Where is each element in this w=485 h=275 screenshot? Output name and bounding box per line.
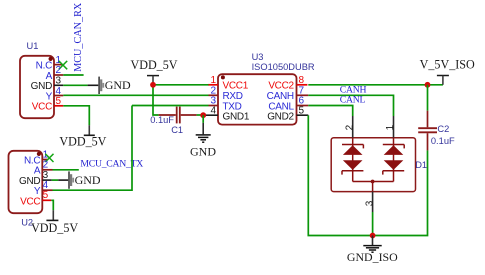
svg-text:GND: GND — [105, 78, 131, 92]
U2 pin 4 Y — [34, 180, 53, 197]
svg-text:0.1uF: 0.1uF — [431, 136, 455, 146]
U3 pin 1 VCC1 — [208, 75, 249, 92]
wire VDD_5V to U3.VCC1 — [153, 84, 209, 86]
svg-text:U3: U3 — [252, 52, 264, 62]
svg-text:GND1: GND1 — [223, 111, 250, 122]
svg-text:C1: C1 — [171, 125, 183, 135]
svg-text:VDD_5V: VDD_5V — [31, 221, 78, 235]
svg-text:MCU_CAN_TX: MCU_CAN_TX — [80, 159, 143, 170]
wire U1.Y to U3.RXD — [63, 94, 208, 96]
component D1 (TVS array) — [331, 138, 427, 192]
svg-text:MCU_CAN_RX: MCU_CAN_RX — [73, 2, 84, 72]
no-connect X on U2 pin 1 — [45, 154, 53, 162]
wire U2.Y to TXD riser — [53, 106, 133, 191]
component U3 ISO1050DUBR — [218, 52, 315, 124]
U3 pin 2 RXD — [209, 85, 243, 102]
junction V_5V_ISO / C2 — [425, 82, 431, 88]
wire GND2 to GND_ISO rail — [308, 115, 427, 235]
U1 pin 1 N.C — [36, 55, 62, 72]
wire TXD horizontal — [132, 105, 209, 107]
power symbol VDD_5V (below U1) — [59, 125, 106, 148]
wire U2.GND to GND bar — [52, 179, 58, 181]
svg-text:GND: GND — [75, 173, 101, 187]
U2 pin 5 VCC — [20, 190, 51, 208]
junction GND1 — [200, 112, 206, 118]
wire CANL — [308, 106, 352, 117]
wire U2.A to net label — [53, 169, 79, 171]
svg-text:D1: D1 — [415, 160, 427, 170]
wire U2.VCC to VDD_5V — [51, 200, 53, 210]
svg-text:GND: GND — [190, 144, 216, 158]
svg-text:VCC: VCC — [32, 102, 52, 113]
component U2 — [9, 151, 43, 228]
svg-text:5: 5 — [43, 190, 49, 201]
svg-text:C2: C2 — [437, 124, 449, 134]
ground GND_ISO (earth) — [347, 236, 398, 264]
svg-text:3: 3 — [364, 200, 375, 206]
wire junction down to GND — [202, 115, 204, 123]
D1 pin 1 lead — [385, 116, 396, 138]
wire U1.GND to GND bar — [63, 84, 87, 86]
D1 pin 2 lead — [344, 116, 355, 138]
U3 pin 5 GND2 — [267, 106, 308, 123]
capacitor C2 — [418, 111, 455, 151]
U3 pin 6 CANL — [268, 96, 308, 113]
svg-text:GND_ISO: GND_ISO — [347, 250, 398, 264]
svg-text:1: 1 — [385, 124, 396, 130]
wire V_5V_ISO down to C2 — [427, 85, 429, 111]
wire D1 pin3 to GND_ISO rail — [372, 212, 374, 236]
svg-text:2: 2 — [43, 160, 49, 171]
power symbol VDD_5V (top) — [130, 58, 177, 85]
U3 pin 8 VCC2 — [268, 75, 307, 92]
svg-text:U1: U1 — [27, 41, 39, 51]
wire C1 to GND1 junction — [197, 114, 204, 116]
D1 TVS pair B (right) — [383, 138, 404, 182]
U1 pin 4 Y — [46, 86, 64, 103]
D1 internal common connector — [353, 180, 394, 192]
wire U1.A to net label — [63, 74, 83, 76]
wire CANH — [308, 95, 393, 116]
U3 pin 4 GND1 — [203, 106, 250, 123]
svg-text:VDD_5V: VDD_5V — [130, 58, 177, 72]
svg-text:ISO1050DUBR: ISO1050DUBR — [252, 62, 315, 72]
wire VCC2 to V_5V_ISO — [308, 84, 443, 86]
junction GND_ISO — [370, 233, 376, 239]
D1 pin 3 lead — [364, 192, 375, 212]
U3 pin 3 TXD — [209, 96, 242, 113]
U2 pin 2 A — [34, 160, 53, 177]
svg-text:N.C: N.C — [36, 61, 52, 72]
U2 pin 3 GND — [19, 170, 52, 187]
wire U1.VCC to VDD_5V — [63, 106, 89, 125]
U2 pin 1 N.C — [24, 149, 49, 166]
U3 pin 7 CANH — [267, 85, 309, 102]
power symbol VDD_5V (below U2) — [31, 210, 78, 235]
svg-text:GND2: GND2 — [267, 111, 294, 122]
power bar symbol GND (U1) — [88, 77, 131, 94]
power bar symbol GND (U2) — [58, 171, 101, 188]
junction VDD_5V — [150, 82, 156, 88]
svg-text:VCC: VCC — [20, 197, 40, 208]
U1 pin 5 VCC — [32, 96, 64, 113]
U1 pin 2 A — [46, 65, 64, 82]
power symbol V_5V_ISO — [420, 58, 475, 85]
svg-text:V_5V_ISO: V_5V_ISO — [420, 58, 475, 72]
svg-text:VDD_5V: VDD_5V — [59, 135, 106, 149]
U1 pin 3 GND — [31, 76, 64, 93]
svg-text:2: 2 — [344, 124, 355, 130]
ground GND (earth, below C1) — [190, 123, 216, 158]
component U1 — [20, 41, 54, 118]
capacitor C1 — [150, 107, 196, 135]
no-connect X on U1 pin 1 — [59, 61, 67, 69]
svg-text:CANL: CANL — [340, 95, 366, 106]
wire VDD_5V down to C1 — [153, 85, 159, 115]
svg-text:0.1uF: 0.1uF — [150, 115, 174, 125]
D1 TVS pair A (left) — [342, 138, 363, 182]
